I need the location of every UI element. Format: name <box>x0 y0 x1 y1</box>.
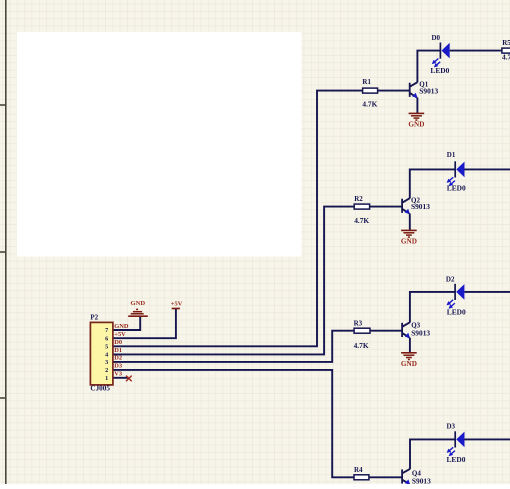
svg-text:S9013: S9013 <box>412 476 431 484</box>
svg-text:+5V: +5V <box>171 300 183 307</box>
ground Q2 <box>401 230 417 245</box>
svg-text:GND: GND <box>401 237 417 245</box>
svg-text:GND: GND <box>114 323 129 330</box>
svg-text:2: 2 <box>105 367 108 374</box>
svg-text:4: 4 <box>105 352 108 359</box>
resistor R2 <box>354 195 369 225</box>
svg-text:P2: P2 <box>90 314 98 322</box>
wire Q1 collector to LED <box>417 51 440 83</box>
sheet border tick 2 <box>0 251 6 253</box>
sheet border tick 1 <box>0 104 6 106</box>
sheet border tick 3 <box>0 397 6 399</box>
wire Q1 emitter to ground <box>416 98 418 114</box>
svg-text:CJ005: CJ005 <box>90 385 110 393</box>
connector P2 CJ005 <box>90 314 113 393</box>
wire net D3 <box>113 370 354 477</box>
resistor R4 <box>354 466 369 480</box>
svg-text:V3: V3 <box>114 371 122 378</box>
resistor R5 <box>502 39 510 62</box>
svg-text:4.7K: 4.7K <box>362 100 377 109</box>
svg-text:GND: GND <box>130 300 145 307</box>
svg-text:4.7K: 4.7K <box>354 216 369 225</box>
svg-text:S9013: S9013 <box>419 87 438 96</box>
wire Q3 emitter to ground <box>409 338 411 353</box>
svg-text:LED0: LED0 <box>447 307 466 316</box>
wire LED D3 to right edge <box>464 438 510 440</box>
power +5V symbol <box>171 300 183 308</box>
svg-text:D3: D3 <box>447 423 456 431</box>
svg-text:3: 3 <box>105 359 108 366</box>
svg-text:+5V: +5V <box>114 331 126 338</box>
svg-text:D2: D2 <box>114 355 122 362</box>
transistor Q2 S9013 <box>402 197 430 214</box>
svg-text:R2: R2 <box>354 195 363 203</box>
wire net V3 stub <box>113 377 129 379</box>
wire R1 to Q1 base <box>378 90 410 92</box>
wire net +5V from P2 pin 6 <box>113 309 176 339</box>
wire LED D2 to right edge <box>464 291 510 293</box>
svg-text:4.7K: 4.7K <box>354 341 369 350</box>
svg-text:D0: D0 <box>432 34 441 42</box>
svg-text:D1: D1 <box>447 151 456 159</box>
transistor Q3 S9013 <box>402 321 430 338</box>
wire Q4 collector to LED <box>410 439 455 469</box>
svg-text:6: 6 <box>105 335 108 342</box>
svg-text:GND: GND <box>408 120 424 128</box>
svg-text:R5: R5 <box>502 39 510 47</box>
ground Q3 <box>401 353 417 368</box>
LED D1 <box>447 161 465 186</box>
svg-text:4.7K: 4.7K <box>502 52 510 61</box>
svg-text:D0: D0 <box>114 339 122 346</box>
svg-text:S9013: S9013 <box>411 329 430 338</box>
wire net GND from P2 pin 7 <box>113 317 140 330</box>
svg-text:GND: GND <box>401 360 417 368</box>
wire Q2 collector to LED <box>410 169 455 198</box>
svg-text:1: 1 <box>105 375 108 382</box>
wire net D2 <box>113 331 354 362</box>
LED D0 <box>432 43 450 68</box>
LED D2 <box>447 284 465 309</box>
ground Q1 <box>408 113 424 128</box>
resistor R3 <box>354 319 370 350</box>
sheet border line <box>5 0 7 484</box>
white blank overlay rectangle <box>17 32 302 257</box>
ground symbol at connector <box>128 300 148 316</box>
svg-text:D1: D1 <box>114 347 122 354</box>
wire Q2 emitter to ground <box>409 214 411 231</box>
svg-text:7: 7 <box>105 327 108 334</box>
wire R4 to Q4 base <box>369 476 402 478</box>
svg-text:D3: D3 <box>114 363 122 370</box>
no-connect X on pin 1 <box>126 376 132 382</box>
wire Q3 collector to LED <box>410 292 455 323</box>
wire LED D1 to right edge <box>465 168 510 170</box>
svg-text:R3: R3 <box>354 319 363 327</box>
svg-text:5: 5 <box>105 344 108 351</box>
svg-text:LED0: LED0 <box>447 455 466 464</box>
wire R3 to Q3 base <box>370 330 402 332</box>
wire net D0 <box>113 91 363 347</box>
resistor R1 <box>362 78 377 109</box>
wire LED D0 to R5 <box>450 50 502 52</box>
LED D3 <box>447 431 465 456</box>
transistor Q4 S9013 <box>402 469 431 486</box>
svg-text:R1: R1 <box>362 78 371 86</box>
svg-text:D2: D2 <box>446 275 455 283</box>
transistor Q1 S9013 <box>410 81 439 98</box>
wire R2 to Q2 base <box>370 206 402 208</box>
svg-text:S9013: S9013 <box>411 202 430 211</box>
wire Q4 emitter stub <box>409 483 411 485</box>
svg-text:R4: R4 <box>354 466 363 474</box>
svg-text:LED0: LED0 <box>447 184 466 193</box>
wire net D1 <box>113 207 354 355</box>
svg-text:LED0: LED0 <box>430 66 449 75</box>
